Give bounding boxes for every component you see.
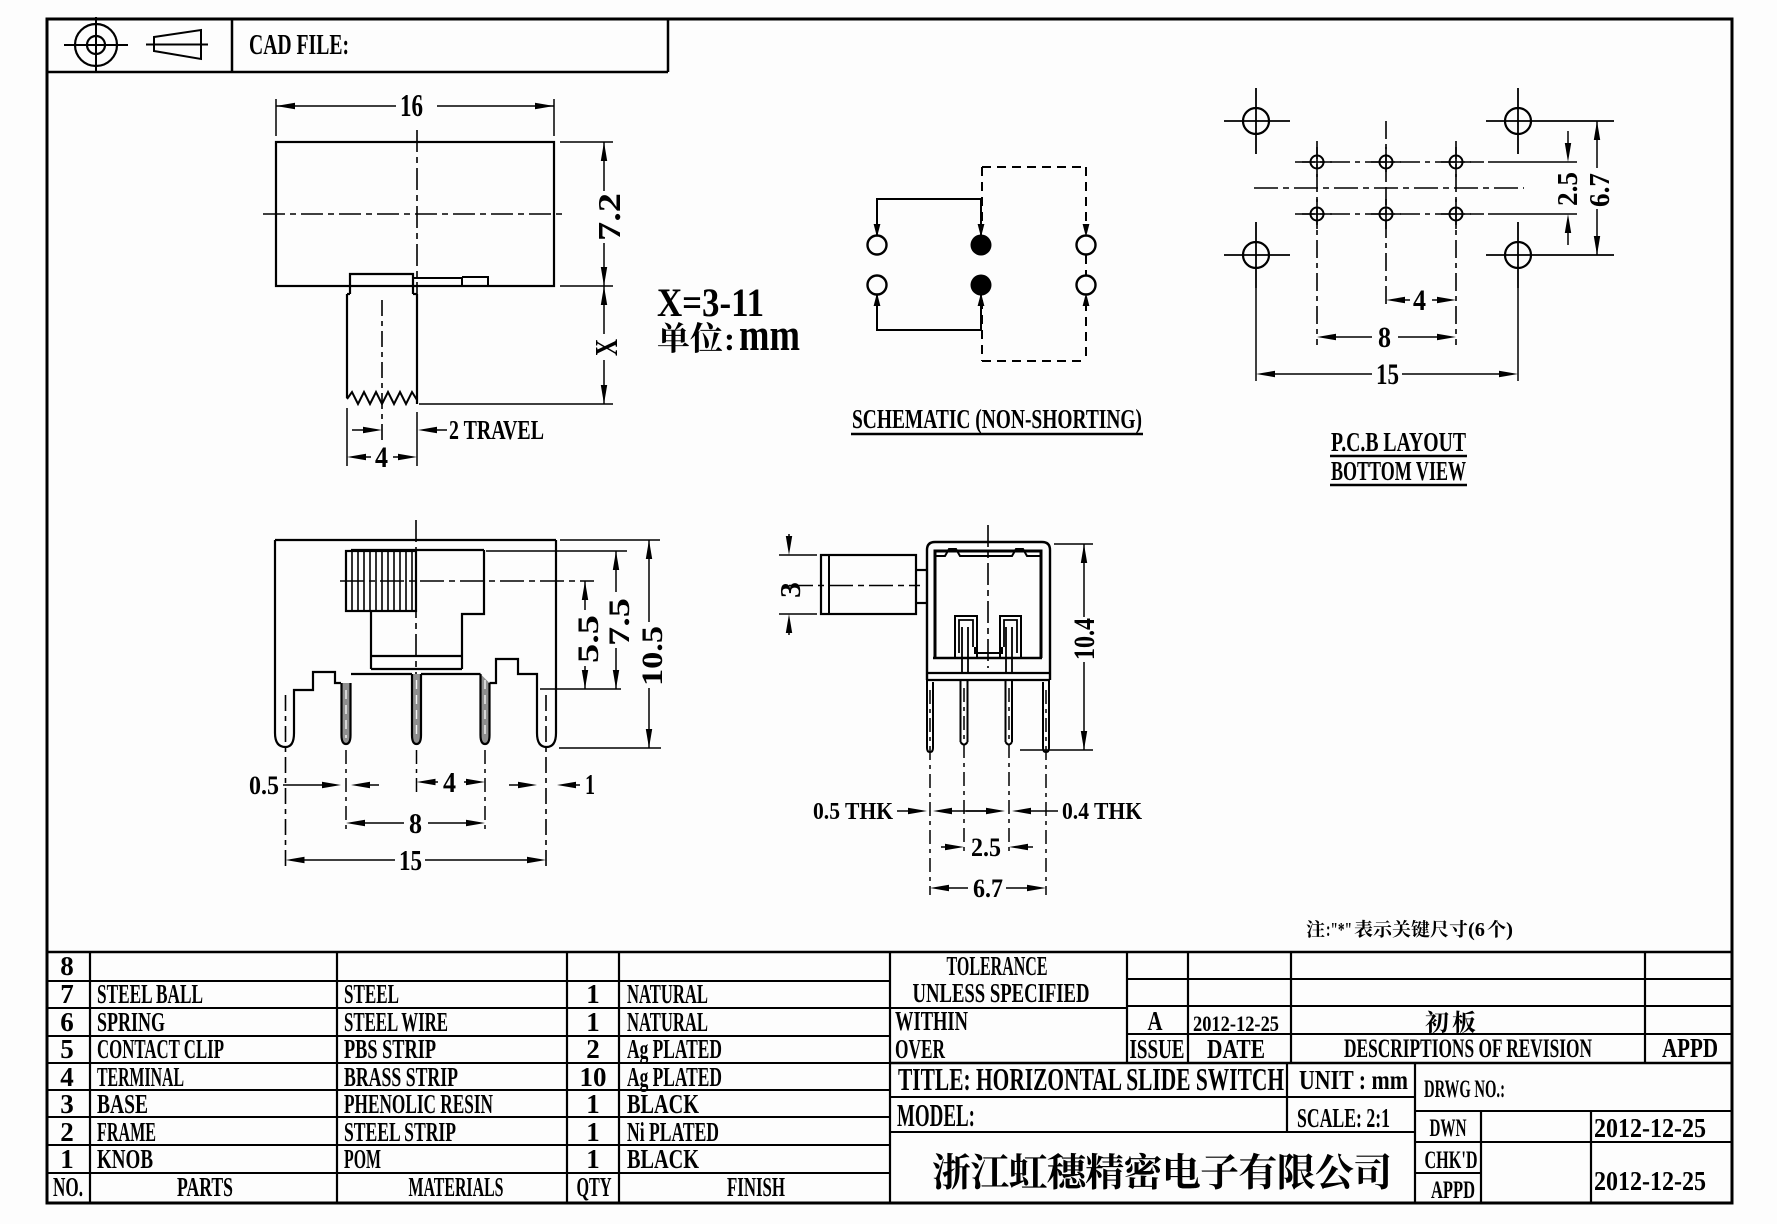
side view: frame outline xyxy=(927,542,1050,680)
top view: bottom-edge tab detail xyxy=(413,277,462,279)
top view: stem centerline xyxy=(381,300,383,445)
pcb: column centerlines xyxy=(1316,141,1318,345)
pcb: bottom hole extensions xyxy=(1255,288,1257,381)
svg-text:6: 6 xyxy=(60,1007,74,1037)
dim 4: dimension line and arrows xyxy=(347,454,366,460)
front view dim 10.5 xyxy=(648,540,650,622)
svg-text:2.5: 2.5 xyxy=(971,833,1001,862)
side view: inner base line xyxy=(933,657,1042,659)
svg-text:Ag PLATED: Ag PLATED xyxy=(627,1062,722,1092)
svg-text:KNOB: KNOB xyxy=(97,1144,153,1174)
svg-text:QTY: QTY xyxy=(577,1172,612,1202)
front view dim 15 xyxy=(286,857,305,863)
side view dim 2.5 xyxy=(941,846,950,848)
svg-text:ISSUE: ISSUE xyxy=(1130,1034,1185,1064)
svg-text:10.5: 10.5 xyxy=(636,626,669,686)
svg-text:MATERIALS: MATERIALS xyxy=(409,1172,504,1202)
top view: knob collar xyxy=(350,274,413,294)
svg-text:3: 3 xyxy=(776,582,807,598)
svg-text:CAD FILE:: CAD FILE: xyxy=(249,30,349,61)
svg-text::"*": :"*" xyxy=(1326,919,1352,941)
schematic: terminal 1 (open) xyxy=(868,236,887,255)
note unit mm (Chinese) xyxy=(658,322,689,353)
svg-text:PBS STRIP: PBS STRIP xyxy=(344,1034,436,1064)
svg-text:(6: (6 xyxy=(1468,919,1485,941)
pcb: mounting hole top-right xyxy=(1505,108,1531,134)
svg-text:2012-12-25: 2012-12-25 xyxy=(1193,1011,1279,1036)
svg-text:7.2: 7.2 xyxy=(591,193,627,241)
svg-text:5: 5 xyxy=(60,1034,74,1064)
svg-text:2: 2 xyxy=(586,1034,600,1064)
svg-text:BOTTOM VIEW: BOTTOM VIEW xyxy=(1331,456,1466,486)
svg-text:4: 4 xyxy=(375,441,388,474)
svg-text:DESCRIPTIONS OF REVISION: DESCRIPTIONS OF REVISION xyxy=(1344,1034,1592,1063)
side view dim 6.7 xyxy=(930,885,949,891)
schematic: terminal 2 (open) xyxy=(868,276,887,295)
side view dim 10.4: extension lines xyxy=(1054,543,1093,545)
svg-text:MODEL:: MODEL: xyxy=(897,1097,975,1133)
company name xyxy=(933,1153,970,1190)
svg-text:PHENOLIC RESIN: PHENOLIC RESIN xyxy=(344,1089,493,1119)
pcb dim 4 xyxy=(1386,297,1405,303)
side view: inner pin lines from contacts xyxy=(961,627,963,673)
top view: knob stem xyxy=(346,294,348,398)
side view: common contact U xyxy=(975,647,1002,653)
svg-text:7.5: 7.5 xyxy=(603,598,636,646)
svg-text:4: 4 xyxy=(1413,284,1426,317)
svg-text:2012-12-25: 2012-12-25 xyxy=(1594,1113,1706,1143)
side view: left mounting leg xyxy=(927,680,933,752)
svg-text:2.5: 2.5 xyxy=(1553,172,1584,206)
key-dimension note xyxy=(1307,920,1325,938)
front view: pin 2 xyxy=(412,674,421,744)
schematic: terminal 3 (open) xyxy=(1077,236,1096,255)
svg-text:6.7: 6.7 xyxy=(1585,173,1616,207)
side view dim 3: arrows xyxy=(788,534,790,541)
pcb dim 6.7: dimension line and arrows xyxy=(1596,121,1598,168)
side view: base plate xyxy=(927,672,1050,674)
svg-text:NO.: NO. xyxy=(53,1172,83,1202)
front view dim 1 xyxy=(509,784,523,786)
side view: pin A (0.5 thk) xyxy=(960,680,962,742)
pcb dim 2.5: arrows xyxy=(1567,131,1569,147)
svg-text:CHK'D: CHK'D xyxy=(1425,1147,1478,1174)
svg-text:8: 8 xyxy=(409,809,422,840)
svg-text:DATE: DATE xyxy=(1207,1034,1265,1064)
svg-text:4: 4 xyxy=(443,768,456,799)
pcb: row centerlines xyxy=(1295,161,1484,163)
side view: contact clip right xyxy=(1000,616,1021,657)
svg-text:P.C.B LAYOUT: P.C.B LAYOUT xyxy=(1331,427,1466,457)
svg-text:mm: mm xyxy=(739,310,800,360)
svg-text:15: 15 xyxy=(1376,358,1399,391)
front view dim 4 xyxy=(417,779,436,785)
svg-text:TERMINAL: TERMINAL xyxy=(97,1062,184,1092)
svg-text:NATURAL: NATURAL xyxy=(627,979,708,1009)
dim 7.2: extension lines xyxy=(560,141,613,143)
svg-text:0.5 THK: 0.5 THK xyxy=(813,799,893,825)
front view dim 7.5 xyxy=(615,551,617,592)
front view: actuator shaft below knob xyxy=(462,550,484,656)
svg-text:UNLESS SPECIFIED: UNLESS SPECIFIED xyxy=(913,978,1090,1008)
svg-text:BLACK: BLACK xyxy=(627,1144,699,1174)
pcb: terminal holes row 1 xyxy=(1311,156,1324,169)
side view dim 3: extension lines xyxy=(779,554,817,556)
svg-text:1: 1 xyxy=(585,770,595,801)
svg-text:APPD: APPD xyxy=(1662,1033,1718,1063)
front view: right foot centerline xyxy=(545,695,547,866)
front view: pin 1 xyxy=(342,683,351,744)
pcb: terminal holes row 2 xyxy=(1311,208,1324,221)
side view: contact clip left xyxy=(955,616,977,657)
schematic: dashed-side arrows xyxy=(1083,224,1090,237)
svg-text:8: 8 xyxy=(60,951,74,981)
front view: left foot centerline xyxy=(285,695,287,866)
svg-text:CONTACT CLIP: CONTACT CLIP xyxy=(97,1034,224,1064)
svg-text:APPD: APPD xyxy=(1431,1177,1475,1204)
front view: base bottom edge segments xyxy=(351,673,412,675)
schematic: dashed housing outline xyxy=(982,166,1086,168)
svg-text::: : xyxy=(724,322,735,358)
front view: inner frame top xyxy=(351,549,484,551)
side view: knob centerline xyxy=(789,585,920,587)
svg-text:2 TRAVEL: 2 TRAVEL xyxy=(449,415,544,445)
svg-text:15: 15 xyxy=(399,846,422,877)
side view: inner top tray with dimples xyxy=(935,549,1041,556)
side view: right mounting leg xyxy=(1043,680,1049,752)
svg-text:16: 16 xyxy=(400,87,423,123)
svg-text:1: 1 xyxy=(586,979,600,1009)
top view: vertical centerline xyxy=(416,130,418,306)
svg-text:STEEL BALL: STEEL BALL xyxy=(97,979,203,1009)
side view: knob-body link xyxy=(916,569,927,571)
svg-text:STEEL WIRE: STEEL WIRE xyxy=(344,1007,448,1037)
schematic: terminal 4 (open) xyxy=(1077,276,1096,295)
parts table and title block grid xyxy=(47,951,1732,954)
schematic: common pole 1 (filled) xyxy=(971,235,992,256)
svg-text:BRASS STRIP: BRASS STRIP xyxy=(344,1062,458,1092)
front view: centerlines xyxy=(340,580,594,582)
svg-text:NATURAL: NATURAL xyxy=(627,1007,708,1037)
svg-text:2012-12-25: 2012-12-25 xyxy=(1594,1166,1706,1196)
side view: knob xyxy=(821,555,916,614)
svg-text:0.5: 0.5 xyxy=(249,771,279,800)
projection cone symbol xyxy=(154,30,201,59)
svg-text:Ag PLATED: Ag PLATED xyxy=(627,1034,722,1064)
front view: right extension lines xyxy=(560,539,660,541)
side view: frame inner edge xyxy=(935,551,1041,658)
svg-text:BLACK: BLACK xyxy=(627,1089,699,1119)
svg-text:10: 10 xyxy=(580,1062,607,1092)
svg-text:PARTS: PARTS xyxy=(177,1172,233,1202)
svg-text:FINISH: FINISH xyxy=(727,1172,785,1202)
svg-text:4: 4 xyxy=(60,1062,74,1092)
schematic: wire top xyxy=(877,199,981,235)
top view: horizontal centerline xyxy=(263,213,567,215)
side view dim 10.4: line and arrows xyxy=(1083,544,1085,617)
dim 4 (stem width): extension lines xyxy=(346,408,348,466)
svg-text:A: A xyxy=(1148,1006,1163,1036)
svg-text:SPRING: SPRING xyxy=(97,1007,165,1037)
svg-text:1: 1 xyxy=(586,1117,600,1147)
svg-text:SCHEMATIC (NON-SHORTING): SCHEMATIC (NON-SHORTING) xyxy=(852,404,1142,434)
svg-text:WITHIN: WITHIN xyxy=(895,1006,968,1036)
front view dim 8 xyxy=(346,820,365,826)
dim X: bottom extension line xyxy=(419,403,613,405)
svg-text:TOLERANCE: TOLERANCE xyxy=(947,951,1048,981)
side view: center vertical axis xyxy=(987,525,989,668)
svg-text:Ni PLATED: Ni PLATED xyxy=(627,1117,719,1147)
svg-text:): ) xyxy=(1506,919,1513,941)
svg-text:2: 2 xyxy=(60,1117,74,1147)
pcb dim 15 xyxy=(1256,371,1275,377)
front view dim 5.5 xyxy=(584,581,586,610)
dim 7.2: dimension line and arrows xyxy=(603,142,605,191)
svg-text:SCALE: 2:1: SCALE: 2:1 xyxy=(1297,1103,1390,1133)
schematic: wire bottom xyxy=(877,295,981,330)
svg-text:3: 3 xyxy=(60,1089,74,1119)
pcb: mounting hole bottom-left xyxy=(1243,242,1269,268)
top view: stem break zigzag xyxy=(347,392,417,404)
dim 16: dimension line and arrows xyxy=(276,105,396,107)
front view: pin extension lines xyxy=(345,750,347,830)
dim 16: extension lines xyxy=(275,99,277,136)
svg-text:DWN: DWN xyxy=(1430,1115,1467,1142)
front view: pin 3 xyxy=(481,674,490,744)
top view: switch body outline xyxy=(276,142,554,286)
svg-text:7: 7 xyxy=(60,979,74,1009)
svg-text:1: 1 xyxy=(586,1007,600,1037)
svg-text:10.4: 10.4 xyxy=(1068,618,1101,660)
svg-text:FRAME: FRAME xyxy=(97,1117,156,1147)
svg-text:X: X xyxy=(588,339,624,356)
svg-text:1: 1 xyxy=(60,1144,74,1174)
third-angle projection target symbol xyxy=(75,24,117,66)
pcb: mounting hole bottom-right xyxy=(1505,242,1531,268)
pcb dim 8 xyxy=(1317,334,1336,340)
front view: knob (hatched) xyxy=(346,551,416,611)
svg-text:STEEL STRIP: STEEL STRIP xyxy=(344,1117,456,1147)
side view: pin B (0.4 thk) xyxy=(1005,680,1007,742)
dim X: dimension line and arrows xyxy=(603,286,605,334)
pcb dim 2.5: extension lines xyxy=(1488,161,1577,163)
svg-text:POM: POM xyxy=(344,1144,381,1174)
svg-text:8: 8 xyxy=(1378,321,1391,354)
svg-text:OVER: OVER xyxy=(895,1034,945,1064)
svg-text:6.7: 6.7 xyxy=(973,874,1003,903)
svg-text:STEEL: STEEL xyxy=(344,979,399,1009)
svg-text:0.4 THK: 0.4 THK xyxy=(1062,799,1142,825)
svg-text:5.5: 5.5 xyxy=(572,615,605,663)
side view dim 0.4 THK xyxy=(966,810,990,812)
svg-text:1: 1 xyxy=(586,1144,600,1174)
pcb: mounting hole top-left xyxy=(1243,108,1269,134)
dim 2 TRAVEL: arrows xyxy=(352,429,370,431)
schematic: common pole 2 (filled) xyxy=(971,275,992,296)
svg-text:DRWG NO.:: DRWG NO.: xyxy=(1424,1076,1505,1103)
CAD FILE title strip xyxy=(47,71,668,74)
svg-text:1: 1 xyxy=(586,1089,600,1119)
svg-text:UNIT : mm: UNIT : mm xyxy=(1299,1065,1408,1095)
svg-text:TITLE: HORIZONTAL SLIDE SWI: TITLE: HORIZONTAL SLIDE SWITCH xyxy=(898,1061,1284,1097)
svg-text:BASE: BASE xyxy=(97,1089,148,1119)
front view: body and bracket outline xyxy=(275,539,556,541)
